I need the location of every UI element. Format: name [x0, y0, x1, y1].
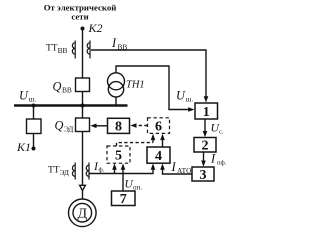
box 5 (dashed)	[107, 146, 130, 163]
svg-text:АТО: АТО	[177, 166, 192, 175]
node K1 (dot)	[32, 147, 36, 151]
arrowhead into Qed right	[90, 124, 96, 129]
wire: TN1 bottom stub to bus	[115, 97, 117, 106]
svg-text:I: I	[111, 36, 117, 50]
svg-text:ТТЭД: ТТЭД	[48, 166, 69, 178]
box 2	[194, 138, 216, 153]
current transformer TTvv right winding	[87, 41, 90, 59]
motor D outer circle	[69, 199, 97, 227]
current transformer TTed left winding	[72, 163, 75, 180]
arrowhead into box 2 top	[203, 131, 208, 137]
wire: from Qed down to motor	[82, 132, 84, 186]
svg-text:Д: Д	[78, 206, 88, 221]
svg-text:ВВ: ВВ	[118, 43, 128, 52]
bus bar (horizontal)	[14, 104, 128, 107]
svg-text:ф.: ф.	[99, 167, 105, 174]
svg-text:I: I	[210, 152, 216, 166]
arrowhead If into box 4 bottom left	[151, 163, 156, 169]
arrowhead into box 6 bottom left	[151, 134, 156, 140]
svg-text:с.: с.	[219, 129, 224, 136]
voltage transformer TN1 circles	[108, 73, 125, 90]
wire: triangle to motor	[82, 191, 84, 200]
wire: Ivv from TTvv to corner and down to box 1	[91, 50, 206, 98]
breaker box on K1 branch	[27, 119, 42, 134]
wire: main feeder vertical from K2 down to bus	[82, 29, 84, 106]
wire: K1 branch stub from bus	[33, 106, 35, 120]
box 8	[108, 118, 130, 133]
svg-text:3: 3	[200, 168, 207, 183]
svg-text:4: 4	[155, 149, 162, 164]
arrowhead Iato into box 4 bottom right	[160, 163, 165, 169]
dashed riser from box5 path into box 6 bottom left	[152, 138, 154, 143]
svg-text:пф.: пф.	[217, 160, 227, 167]
wire: If stub up into box 5	[114, 167, 116, 174]
open triangle arrowhead above motor	[80, 185, 86, 190]
breaker Qed box	[76, 118, 90, 132]
wire: K1 branch below box	[33, 134, 35, 149]
arrowhead into box 8 right	[130, 123, 136, 128]
svg-text:К1: К1	[16, 140, 31, 154]
arrowhead Uop into box 5 bottom	[121, 163, 126, 169]
arrowhead into box 6 bottom right	[160, 134, 165, 140]
current transformer TTed right winding	[86, 163, 89, 180]
junction dot K1 branch/bus	[32, 104, 36, 108]
svg-text:ТТВВ: ТТВВ	[46, 44, 68, 56]
svg-text:8: 8	[115, 120, 122, 135]
svg-text:сети: сети	[71, 12, 88, 22]
wire: Iato line from box 3 to box 4 riser	[163, 167, 193, 174]
svg-text:2: 2	[202, 139, 209, 154]
wire: box 1 to box 2	[204, 119, 206, 133]
svg-text:6: 6	[155, 119, 162, 134]
arrowhead If into box 5 bottom	[112, 163, 117, 169]
svg-text:ш.: ш.	[29, 95, 37, 104]
svg-text:U: U	[176, 89, 186, 103]
wire: box 4 top riser into box 6	[162, 138, 164, 147]
svg-text:Q: Q	[55, 119, 64, 133]
box 3	[192, 167, 214, 181]
dashed wire: box 6 to box 8	[136, 125, 148, 127]
wire: Uop riser from box 7 up through If line into box 5	[122, 167, 124, 191]
wire: bus down to Qed	[82, 106, 84, 119]
svg-text:1: 1	[203, 105, 210, 120]
arrowhead into box 3 top	[201, 161, 206, 167]
dashed wire: from box 5 top up and right to riser	[117, 143, 154, 146]
svg-text:ВВ: ВВ	[62, 86, 72, 95]
svg-text:оп.: оп.	[133, 184, 142, 192]
box 6 (dashed)	[148, 118, 170, 134]
svg-text:I: I	[171, 160, 177, 174]
svg-text:Q: Q	[53, 80, 62, 94]
box 1	[195, 103, 218, 119]
svg-text:ТН1: ТН1	[126, 80, 145, 91]
voltage transformer TN1 top stub and line to box 1	[116, 66, 189, 110]
box 4	[147, 147, 170, 163]
wire: box 8 to Qed trip line	[96, 125, 108, 127]
svg-text:U: U	[19, 89, 29, 103]
svg-text:ЭД: ЭД	[64, 125, 73, 134]
box 7	[112, 191, 136, 206]
arrowhead Ush into box 1 left	[188, 107, 194, 112]
current transformer TTvv left winding	[72, 41, 75, 59]
svg-text:К2: К2	[88, 21, 103, 35]
svg-text:5: 5	[115, 148, 122, 163]
node K2 (dot)	[81, 27, 85, 31]
motor D inner circle	[73, 203, 92, 222]
arrowhead Ivv into box 1 top	[204, 96, 209, 102]
svg-text:7: 7	[120, 192, 127, 207]
wire: If line from TTed to box 4 riser	[89, 167, 153, 174]
junction dot feeder/bus	[80, 103, 84, 107]
breaker Qvv box	[76, 78, 90, 92]
wire: box 2 to box 3	[203, 152, 205, 163]
svg-text:ш.: ш.	[186, 95, 194, 104]
